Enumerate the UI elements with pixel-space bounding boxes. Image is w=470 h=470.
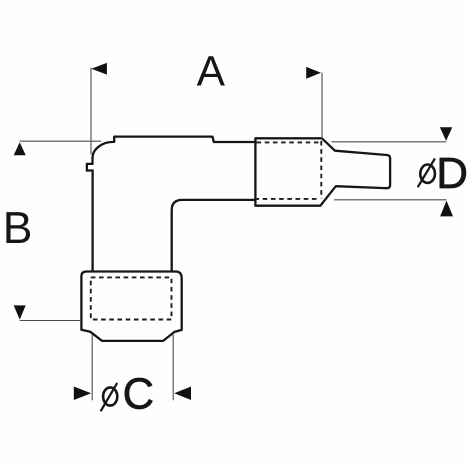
dimension B bottom arrow — [14, 305, 26, 319]
svg-text:C: C — [123, 371, 154, 419]
dimension C left extension line — [91, 335, 93, 401]
dimension D bottom line — [334, 199, 446, 201]
cap inner elbow edge — [172, 200, 256, 271]
dimension D top line — [332, 141, 447, 143]
plug boot hidden bore (dashed) — [91, 277, 172, 319]
cap left edge with retaining notch — [87, 158, 93, 272]
diameter symbol of label C — [101, 383, 118, 411]
svg-text:A: A — [197, 48, 226, 95]
dimension B top arrow — [14, 142, 26, 155]
dimension A right extension line — [321, 73, 323, 139]
dimension B bottom line — [20, 320, 82, 322]
dimension A left extension line — [90, 68, 92, 155]
dimension C left arrow — [74, 387, 91, 401]
dimension C right arrow — [174, 387, 191, 401]
dimension B top line — [20, 140, 102, 142]
cap upper body outline (elbow top) — [92, 137, 255, 159]
grommet hidden cap end (dashed) — [256, 141, 321, 199]
terminal grommet (right) outline — [255, 138, 390, 205]
dimension D bottom arrow — [440, 201, 453, 217]
plug boot (lower) outline — [81, 272, 181, 341]
dimension D top arrow — [440, 127, 452, 141]
dimension C right extension line — [172, 335, 174, 401]
diameter symbol of label D — [418, 159, 435, 188]
svg-text:B: B — [3, 204, 33, 253]
dimension A left arrow — [91, 63, 107, 75]
dimension A right arrow — [306, 67, 321, 79]
svg-text:D: D — [436, 149, 468, 198]
